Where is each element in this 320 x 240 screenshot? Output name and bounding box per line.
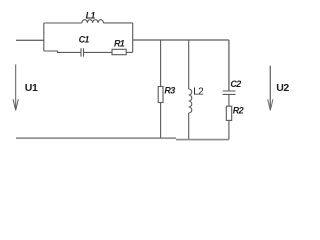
svg-text:C1: C1: [79, 35, 90, 45]
wire box left edge: [43, 23, 45, 51]
wire L2 top: [188, 40, 190, 89]
wire top branch left: [44, 22, 82, 24]
svg-text:U1: U1: [25, 82, 38, 94]
wire R1 to right edge: [126, 51, 133, 53]
resistor R2: [226, 106, 231, 120]
svg-text:U2: U2: [276, 82, 289, 94]
wire C2 to R2: [228, 94, 230, 106]
svg-text:L1: L1: [86, 11, 96, 21]
wire C2 branch top: [228, 40, 230, 91]
wire top branch right: [103, 22, 132, 24]
wire box right edge: [132, 23, 134, 53]
wire C1 to R1: [84, 51, 113, 53]
wire bottom A: [16, 137, 176, 139]
inductor L2: [189, 89, 192, 113]
svg-text:C2: C2: [230, 79, 241, 89]
wire R2 bottom: [228, 120, 230, 139]
inductor L1: [82, 20, 103, 23]
svg-text:R1: R1: [114, 39, 125, 49]
arrow U2: [268, 66, 273, 111]
capacitor C1: [81, 48, 84, 56]
capacitor C2: [223, 91, 236, 94]
wire R3 bottom: [160, 103, 162, 139]
svg-text:L2: L2: [193, 87, 204, 98]
wire L2 bottom: [188, 113, 190, 140]
wire bottom B: [176, 139, 229, 141]
wire input left: [16, 39, 44, 41]
wire output top: [133, 39, 229, 41]
svg-text:R2: R2: [233, 106, 244, 116]
resistor R1: [112, 49, 126, 54]
arrow U1: [13, 64, 18, 110]
svg-text:R3: R3: [164, 86, 175, 96]
wire bottom branch with jog: [44, 51, 81, 52]
wire R3 top: [160, 40, 162, 87]
resistor R3: [158, 87, 163, 103]
